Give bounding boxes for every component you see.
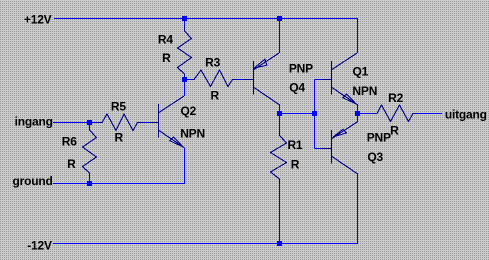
svg-text:uitgang: uitgang (445, 107, 487, 121)
svg-text:Q1: Q1 (352, 64, 368, 78)
svg-text:-12V: -12V (27, 239, 52, 253)
svg-text:+12V: +12V (24, 13, 52, 27)
svg-text:PNP: PNP (289, 62, 313, 76)
svg-text:R1: R1 (287, 138, 302, 152)
svg-text:Q4: Q4 (289, 80, 305, 94)
svg-text:R3: R3 (205, 56, 220, 70)
svg-text:PNP: PNP (367, 131, 391, 145)
svg-text:R: R (162, 51, 171, 65)
svg-text:R6: R6 (62, 135, 77, 149)
svg-text:R: R (115, 131, 124, 145)
svg-text:NPN: NPN (352, 84, 377, 98)
svg-text:R: R (67, 157, 76, 171)
svg-text:R: R (291, 158, 300, 172)
svg-text:Q3: Q3 (367, 150, 383, 164)
svg-text:NPN: NPN (180, 127, 205, 141)
svg-text:ingang: ingang (15, 115, 53, 129)
svg-text:R: R (210, 89, 219, 103)
svg-text:R4: R4 (158, 33, 173, 47)
svg-text:Q2: Q2 (180, 104, 196, 118)
svg-text:R2: R2 (388, 91, 403, 105)
svg-text:R5: R5 (111, 100, 126, 114)
svg-text:ground: ground (13, 174, 53, 188)
svg-text:R: R (390, 124, 399, 138)
